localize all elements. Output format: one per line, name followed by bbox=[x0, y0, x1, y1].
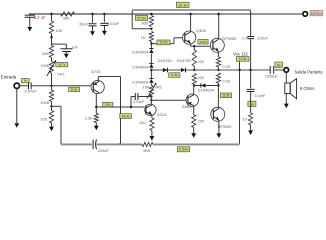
ground 3.3K bbox=[95, 123, 97, 126]
ground Entrada bbox=[16, 88, 18, 123]
wire A733 collector to 3.3K bbox=[95, 107, 97, 114]
node rail-0.01uF bbox=[103, 13, 105, 15]
resistor 39K bbox=[61, 12, 75, 16]
svg-text:10: 10 bbox=[243, 116, 248, 121]
capacitor 33uF bbox=[89, 23, 97, 25]
wire A733 collector bbox=[95, 93, 97, 107]
svg-text:Salida Parlante: Salida Parlante bbox=[294, 69, 323, 74]
voltage label TIP bot collector bbox=[220, 93, 231, 98]
wire zobel top bbox=[250, 70, 252, 88]
svg-text:12Vcc: 12Vcc bbox=[311, 11, 323, 16]
resistor 1K bbox=[149, 32, 153, 42]
node rail-D400 bbox=[189, 13, 191, 15]
node D400 base tee bbox=[150, 42, 152, 44]
wire VR1 to input node bbox=[51, 73, 53, 86]
capacitor 1uF bbox=[60, 48, 72, 50]
wire 220a to out bbox=[193, 66, 195, 70]
svg-text:(NP): (NP) bbox=[242, 36, 249, 40]
wire D1-D2 bbox=[150, 54, 152, 64]
diode D2 1N4004 bbox=[149, 62, 153, 64]
ground TIP bot bbox=[217, 133, 222, 138]
voltage label input bbox=[22, 79, 30, 83]
svg-text:D1N4004: D1N4004 bbox=[132, 65, 148, 69]
transistor Q4 TIP3055 top bbox=[210, 38, 224, 52]
speaker 8 Ohms bbox=[285, 83, 290, 94]
node rail-12K bbox=[50, 13, 52, 15]
svg-text:36.7v: 36.7v bbox=[58, 63, 66, 67]
resistor 5K6 bbox=[142, 142, 153, 146]
node A683 base tap bbox=[150, 99, 152, 101]
resistor 10 zobel bbox=[249, 113, 253, 125]
terminal 12Vcc bbox=[303, 12, 308, 17]
node TIP base tee bbox=[193, 45, 195, 47]
wire D2-D3 bbox=[150, 68, 152, 78]
wire 0.33a to out bbox=[217, 67, 219, 70]
capacitor 2200uF bbox=[269, 66, 271, 74]
wire bottom rail mid bbox=[97, 143, 143, 145]
transistor Q5 A683 bbox=[186, 94, 198, 106]
svg-text:Vcc 1/2: Vcc 1/2 bbox=[233, 52, 248, 57]
capacitor 0.47uF bbox=[28, 82, 30, 89]
node feedback join bbox=[119, 143, 121, 145]
label 12Vcc box bbox=[310, 10, 323, 15]
node zener tee bbox=[150, 69, 152, 71]
resistor 3.3K bbox=[94, 114, 98, 123]
svg-text:0.1mF: 0.1mF bbox=[255, 93, 267, 98]
wire VAS base bbox=[96, 106, 144, 108]
ground 1uF bbox=[64, 54, 69, 59]
wire TIP bot emitter bbox=[218, 121, 220, 133]
svg-text:11.8v: 11.8v bbox=[171, 73, 179, 77]
node 270pF tap bbox=[150, 95, 152, 97]
ground 0.01uF bbox=[103, 26, 105, 31]
voltage label bootstrap bbox=[176, 2, 189, 7]
capacitor 2.2uF bbox=[29, 14, 31, 15]
svg-text:100: 100 bbox=[40, 117, 47, 122]
voltage label VR1 node bbox=[56, 63, 68, 67]
svg-text:3.3K: 3.3K bbox=[85, 116, 93, 121]
ground 33uF bbox=[92, 26, 94, 31]
wire D313 emitter bbox=[151, 115, 153, 118]
wire 12V top rail right bbox=[195, 13, 303, 15]
node A733 collector bbox=[95, 106, 97, 108]
voltage label VAS base bbox=[120, 114, 132, 119]
svg-text:100K: 100K bbox=[40, 63, 49, 68]
svg-text:A683: A683 bbox=[182, 104, 192, 109]
node rail-33uF bbox=[91, 13, 93, 15]
svg-text:11.9v: 11.9v bbox=[239, 57, 247, 61]
transistor Q1 A733 bbox=[91, 80, 104, 93]
node A bbox=[50, 36, 52, 38]
svg-text:560: 560 bbox=[141, 21, 148, 26]
svg-text:8 Ohms: 8 Ohms bbox=[300, 86, 314, 91]
diode D4 1N4004 output bbox=[200, 83, 202, 87]
capacitor 220uF feedback bbox=[92, 140, 94, 150]
node diode-220b bbox=[193, 84, 195, 86]
wire D3 to VR2 bbox=[150, 83, 152, 85]
wire 0.33b to node H bbox=[217, 83, 219, 86]
resistor 560 bbox=[149, 16, 153, 27]
wire output rail right bbox=[240, 69, 271, 71]
svg-text:100: 100 bbox=[139, 120, 146, 125]
voltage label output bbox=[275, 62, 283, 67]
node out-0.33a bbox=[217, 69, 219, 71]
capacitor 270pF bbox=[134, 93, 136, 100]
terminal Entrada bbox=[14, 83, 19, 88]
resistor 220 c bbox=[192, 115, 196, 128]
wire A733 emitter up bbox=[97, 77, 99, 81]
capacitor C9 220uF NP bootstrap bbox=[247, 36, 254, 38]
wire Vcc stub bbox=[239, 61, 241, 70]
wire TIP top emitter bbox=[217, 52, 219, 57]
wire output rail left bbox=[151, 69, 239, 71]
node B bbox=[50, 85, 52, 87]
terminal Salida bbox=[284, 68, 289, 73]
node out-220a bbox=[193, 69, 195, 71]
wire bootstrap left drop bbox=[131, 10, 133, 29]
svg-text:VR1: VR1 bbox=[57, 72, 65, 77]
voltage label driver bbox=[198, 40, 208, 45]
svg-text:56K: 56K bbox=[42, 51, 49, 56]
resistor 0.33 a bbox=[216, 57, 220, 67]
transistor Q6 TIP3055 bottom bbox=[211, 107, 225, 121]
wire 12V top rail left bbox=[29, 13, 195, 15]
svg-text:39K: 39K bbox=[63, 16, 70, 21]
wire node C right bbox=[52, 105, 62, 107]
wire 220b to diode wire bbox=[193, 85, 195, 86]
wire bootstrap top line bbox=[132, 9, 250, 11]
wire A683 emitter bbox=[193, 106, 195, 115]
wire D400 emitter bbox=[190, 43, 192, 46]
node rail-560 bbox=[150, 13, 152, 15]
voltage label A733 collector bbox=[103, 102, 113, 106]
potentiometer VR1 100K bbox=[49, 62, 53, 74]
wire input to cap bbox=[19, 85, 28, 87]
resistor 220 b bbox=[192, 74, 196, 85]
svg-text:220: 220 bbox=[198, 119, 205, 124]
node Vcc half bbox=[238, 69, 240, 71]
wire 33uF lead bbox=[92, 14, 94, 23]
wire 0.01uF lead bbox=[103, 14, 105, 22]
svg-text:D1N750: D1N750 bbox=[177, 59, 191, 63]
wire speaker top bbox=[285, 72, 287, 83]
svg-text:0.01uF: 0.01uF bbox=[107, 21, 120, 26]
svg-text:VR2: VR2 bbox=[154, 84, 162, 89]
resistor 100K lower bbox=[49, 90, 53, 102]
svg-text:D1N750: D1N750 bbox=[158, 59, 172, 63]
wire 220a lead bbox=[193, 46, 195, 50]
wire zobel mid bbox=[250, 92, 252, 113]
svg-text:D1N4004: D1N4004 bbox=[198, 89, 214, 93]
wire node B to 100K bbox=[51, 86, 53, 90]
wire bootstrap right drop upper bbox=[250, 10, 252, 36]
svg-text:12.5v: 12.5v bbox=[159, 41, 168, 45]
svg-text:57.0v: 57.0v bbox=[137, 16, 146, 20]
node rail-TIP bbox=[218, 13, 220, 15]
wire A683 base bbox=[151, 99, 188, 101]
ground 2.2uF bbox=[27, 27, 32, 31]
wire 100K to node C bbox=[51, 102, 53, 107]
wire VR2 to D313 bbox=[150, 96, 152, 104]
wire output return drop bbox=[239, 70, 241, 144]
svg-text:D313: D313 bbox=[157, 112, 167, 117]
wire 220c to ground bbox=[193, 128, 195, 134]
ground D313 emitter bbox=[151, 131, 153, 137]
wire TIP bot collector bbox=[217, 86, 219, 108]
transistor Q3 D400 bbox=[183, 31, 196, 44]
svg-text:10K: 10K bbox=[143, 84, 150, 89]
voltage label feedback bbox=[177, 147, 189, 152]
wire speaker bottom bbox=[285, 94, 287, 104]
resistor 0.33 b bbox=[216, 73, 220, 83]
wire feedback drop bbox=[60, 106, 62, 144]
voltage label zener bbox=[169, 73, 180, 78]
svg-text:0.33: 0.33 bbox=[222, 79, 230, 84]
node C bbox=[50, 105, 52, 107]
wire cap to node B bbox=[31, 85, 93, 87]
svg-text:270pF: 270pF bbox=[133, 100, 144, 104]
zener DZ2 1N750 bbox=[181, 68, 185, 72]
svg-text:D400: D400 bbox=[196, 28, 206, 33]
wire 270pF left elbow bbox=[130, 97, 132, 108]
diode D1 1N4004 bbox=[149, 48, 153, 50]
wire bootstrap to output bbox=[250, 39, 252, 70]
svg-text:0.33: 0.33 bbox=[222, 64, 230, 69]
svg-text:33uF: 33uF bbox=[79, 22, 88, 27]
resistor 100 bbox=[49, 111, 53, 124]
voltage label zobel bbox=[248, 101, 256, 106]
wire 12K top lead bbox=[51, 14, 53, 21]
wire node A to 1uF bbox=[52, 43, 67, 45]
svg-text:12.8v: 12.8v bbox=[199, 40, 207, 44]
wire A683 collector bbox=[193, 86, 195, 95]
svg-text:220: 220 bbox=[198, 75, 205, 80]
svg-text:Entrada: Entrada bbox=[1, 75, 17, 80]
wire D400 base bbox=[151, 43, 174, 45]
voltage label rail bbox=[135, 15, 147, 20]
ground 100 bbox=[51, 123, 53, 127]
svg-text:220uF: 220uF bbox=[257, 35, 269, 40]
wire A733 emitter drop bbox=[120, 77, 122, 145]
wire bottom rail right bbox=[153, 143, 240, 145]
svg-text:D1N4004: D1N4004 bbox=[132, 51, 148, 55]
ground zobel bbox=[250, 125, 252, 130]
svg-text:12.1v: 12.1v bbox=[178, 3, 187, 7]
resistor 12K bbox=[49, 21, 53, 34]
svg-text:0.54v: 0.54v bbox=[179, 148, 188, 152]
svg-text:0v: 0v bbox=[277, 62, 281, 67]
svg-text:34.9v: 34.9v bbox=[71, 87, 79, 91]
voltage label A733 base bbox=[69, 87, 80, 91]
svg-text:15.4v: 15.4v bbox=[122, 114, 130, 118]
svg-text:A733: A733 bbox=[91, 69, 101, 74]
wire 12K to node A bbox=[51, 34, 53, 46]
wire 1K to D1 bbox=[150, 42, 152, 49]
wire diode net bbox=[194, 85, 218, 87]
wire node C to 100 bbox=[51, 106, 53, 110]
node 560-1K bbox=[150, 28, 152, 30]
voltage label Vcc half bbox=[236, 57, 249, 62]
capacitor 0.1mF zobel bbox=[247, 88, 255, 90]
resistor 220 a bbox=[192, 50, 196, 66]
potentiometer VR2 10K bbox=[149, 86, 153, 97]
svg-text:220: 220 bbox=[198, 59, 205, 64]
svg-text:1K: 1K bbox=[141, 35, 146, 40]
svg-text:11.5v: 11.5v bbox=[222, 94, 230, 98]
svg-text:TIP3055: TIP3055 bbox=[222, 37, 236, 41]
wire 2200uF to terminal bbox=[274, 69, 284, 71]
wire D400 collector bbox=[190, 14, 192, 32]
resistor 100 emitter bbox=[150, 118, 154, 131]
svg-text:100K: 100K bbox=[40, 100, 49, 105]
wire 56K to VR1 bbox=[51, 58, 53, 62]
svg-text:2200uF: 2200uF bbox=[265, 73, 279, 78]
wire bottom rail left bbox=[61, 143, 92, 145]
node 270pF base end bbox=[130, 106, 132, 108]
resistor 56K bbox=[49, 46, 53, 58]
svg-text:2.2 uF: 2.2 uF bbox=[34, 15, 47, 20]
zener DZ1 1N750 bbox=[163, 68, 167, 72]
node H bbox=[217, 84, 219, 86]
svg-text:5K6: 5K6 bbox=[143, 148, 150, 153]
diode D3 1N4004 bbox=[149, 78, 153, 80]
wire 270pF right bbox=[138, 96, 152, 98]
wire TIP top collector bbox=[218, 14, 220, 39]
transistor Q2 D313 bbox=[145, 104, 156, 115]
node output-bootstrap bbox=[249, 69, 251, 71]
svg-text:0.47uF: 0.47uF bbox=[25, 89, 38, 94]
svg-text:2.8v: 2.8v bbox=[105, 103, 111, 107]
ground A683 emitter bbox=[191, 133, 196, 138]
voltage label D400 base bbox=[157, 40, 170, 45]
svg-text:12K: 12K bbox=[56, 28, 63, 33]
capacitor 0.01uF bbox=[100, 22, 108, 24]
svg-text:1uF: 1uF bbox=[71, 45, 78, 50]
svg-text:220uF: 220uF bbox=[98, 148, 110, 153]
ground speaker bbox=[284, 104, 289, 109]
